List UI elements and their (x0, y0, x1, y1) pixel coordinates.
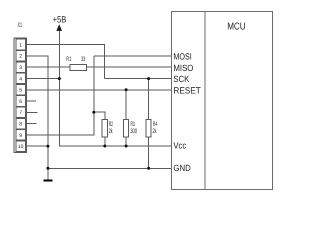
svg-text:1: 1 (19, 42, 22, 48)
wire ground stub (47, 168, 49, 179)
resistor R2 body (102, 120, 107, 137)
wire pin2 to ground vertical (26, 56, 48, 169)
wire pin10 to gnd vertical (26, 145, 48, 147)
svg-text:MISO: MISO (173, 63, 193, 73)
connector X1 pin 6 box (16, 96, 26, 107)
svg-text:MOSI: MOSI (173, 51, 191, 61)
connector X1 pin 8 box (16, 118, 26, 129)
svg-text:8: 8 (19, 122, 22, 128)
wire pin5 RESET rail (26, 89, 171, 91)
node R2 bottom Vcc junction (103, 145, 106, 148)
wire R3 top lead (125, 90, 127, 120)
wire R2 branch jog (94, 112, 105, 120)
wire GND rail (48, 167, 172, 169)
connector X1 pin 1 box (16, 39, 26, 50)
svg-text:5: 5 (19, 88, 22, 94)
svg-text:7: 7 (19, 110, 22, 116)
resistor R3 body (124, 120, 129, 137)
wire R3 bottom lead (125, 137, 127, 146)
connector X1 outer body (14, 38, 26, 153)
+5B power arrow (56, 24, 62, 31)
MCU box (172, 11, 273, 189)
wire pin3 MISO rail through R1 (26, 66, 171, 68)
svg-text:2k: 2k (109, 128, 113, 135)
connector X1 pin 4 box (16, 73, 26, 84)
connector X1 pin 3 box (16, 62, 26, 73)
node R4 top SCK junction (147, 77, 150, 80)
svg-text:10: 10 (18, 144, 24, 150)
connector X1 pin 5 box (16, 84, 26, 95)
resistor R4 body (146, 120, 151, 137)
node R3 bottom Vcc junction (125, 145, 128, 148)
node pin4/+5B junction (58, 77, 61, 80)
svg-text:3: 3 (19, 65, 22, 71)
wire SCK rail (105, 78, 172, 80)
connector X1 pin 2 box (16, 51, 26, 62)
wire R2 bottom lead (104, 137, 106, 146)
node R3 top RESET junction (125, 88, 128, 91)
svg-text:SCK: SCK (173, 74, 189, 84)
wire pin1 to SCK vertical (26, 45, 104, 79)
svg-text:6: 6 (19, 99, 22, 105)
svg-text:2k: 2k (153, 128, 158, 135)
connector X1 pin 10 box (16, 141, 26, 152)
wire MOSI rail (94, 55, 172, 57)
svg-text:X1: X1 (18, 22, 23, 29)
svg-text:9: 9 (19, 133, 22, 139)
svg-text:2: 2 (19, 54, 22, 60)
ground symbol bar (44, 179, 53, 181)
svg-text:+5B: +5B (53, 15, 67, 25)
connector X1 pin 7 box (16, 107, 26, 118)
svg-text:RESET: RESET (173, 86, 201, 96)
wire pin9 to MOSI vertical (26, 56, 94, 135)
svg-text:300: 300 (130, 128, 137, 135)
svg-text:R1: R1 (66, 56, 71, 63)
node MOSI/R2 junction (92, 111, 95, 114)
svg-text:33: 33 (81, 56, 86, 63)
resistor R1 body (70, 65, 86, 71)
wire R4 bottom lead (148, 137, 150, 169)
node R4 bottom GND junction (147, 167, 150, 170)
svg-text:GND: GND (173, 163, 191, 173)
svg-text:MCU: MCU (227, 22, 245, 33)
junction dots (46, 77, 150, 170)
wire pin4 to +5B rail (26, 78, 59, 80)
wire pin7 stub (26, 111, 37, 113)
wire R4 top lead (148, 79, 150, 120)
wire +5B rail down and Vcc rail (59, 30, 171, 147)
wire pin6 stub (26, 100, 36, 102)
svg-text:Vcc: Vcc (173, 141, 186, 151)
node GND rail junction (46, 167, 49, 170)
connector X1 pin 9 box (16, 130, 26, 141)
wire pin8 stub (26, 123, 36, 125)
svg-text:4: 4 (19, 76, 22, 82)
node pin10 GND junction (46, 145, 49, 148)
